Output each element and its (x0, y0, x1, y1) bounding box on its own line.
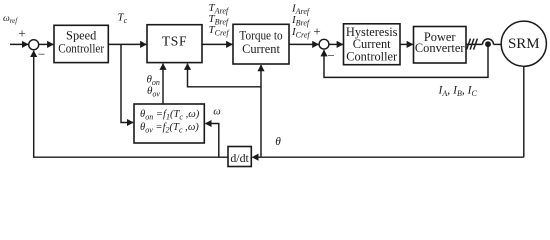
svg-text:θon =f1(Tc ,ω): θon =f1(Tc ,ω) (140, 109, 200, 122)
svg-text:ICref: ICref (291, 26, 311, 40)
svg-text:Torque to: Torque to (239, 29, 282, 43)
svg-text:Converter: Converter (415, 41, 465, 55)
svg-text:θov =f2(Tc ,ω): θov =f2(Tc ,ω) (140, 122, 199, 135)
svg-text:Controller: Controller (346, 49, 398, 63)
svg-text:−: − (38, 47, 45, 62)
svg-text:Speed: Speed (66, 29, 97, 43)
svg-text:Tc: Tc (118, 12, 128, 26)
svg-text:Current: Current (242, 42, 280, 56)
svg-text:Controller: Controller (58, 42, 105, 56)
svg-text:TSF: TSF (162, 33, 187, 48)
svg-text:IA, IB, IC: IA, IB, IC (438, 83, 478, 98)
svg-text:+: + (313, 24, 320, 39)
svg-text:SRM: SRM (508, 36, 540, 52)
svg-text:ω: ω (213, 106, 220, 117)
svg-text:θ: θ (275, 136, 281, 148)
svg-text:+: + (18, 26, 25, 41)
svg-text:ωref: ωref (3, 13, 18, 25)
svg-text:−: − (327, 48, 334, 63)
svg-text:d/dt: d/dt (230, 151, 249, 165)
